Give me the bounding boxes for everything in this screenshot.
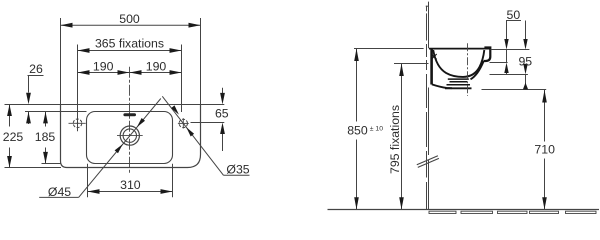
svg-text:850: 850 xyxy=(347,123,368,137)
node diameter45 arrows xyxy=(115,144,123,153)
basin inner bowl outline xyxy=(87,112,173,164)
wire 190 dimension line xyxy=(78,72,182,74)
wire 795 dimension line xyxy=(401,64,403,210)
wire 26 label underline xyxy=(28,75,44,77)
svg-text:50: 50 xyxy=(507,8,521,22)
tap hole right xyxy=(179,119,187,127)
wire 185 dimension vertical xyxy=(45,112,47,127)
node 850 arrows xyxy=(354,49,359,62)
wire 795 extension top xyxy=(394,63,429,65)
wire 500 extension right xyxy=(200,18,202,105)
wire bottom extension left xyxy=(5,167,62,169)
overflow slot xyxy=(123,113,136,116)
wire rim top extension right xyxy=(491,49,530,51)
svg-text:95: 95 xyxy=(518,55,532,69)
wire 310 extension right xyxy=(172,164,174,197)
node 710 arrows xyxy=(542,90,547,103)
svg-text:Ø45: Ø45 xyxy=(48,185,71,199)
node arrow above underside line xyxy=(523,83,528,90)
leader diameter 35 xyxy=(162,96,223,175)
svg-text:Ø35: Ø35 xyxy=(226,162,249,176)
svg-text:65: 65 xyxy=(215,107,229,121)
centerline bowl section xyxy=(467,43,469,96)
wire 310 dimension line xyxy=(88,191,173,193)
node 190 arrows xyxy=(78,70,90,75)
svg-text:310: 310 xyxy=(120,178,141,192)
svg-text:710: 710 xyxy=(534,143,555,157)
centerline basin vertical xyxy=(129,67,131,174)
wire extension line y74 xyxy=(490,74,528,76)
wire 850 dimension line xyxy=(356,49,358,210)
arrowheads xyxy=(7,23,547,210)
wire top extension line left view xyxy=(5,104,225,106)
wire 65 dimension arrows stems xyxy=(222,88,224,93)
node 365 arrows xyxy=(78,48,90,53)
wire 500 dimension line xyxy=(61,24,201,26)
node 225 arrows xyxy=(7,105,12,117)
svg-text:185: 185 xyxy=(35,130,56,144)
wire 365 extension left xyxy=(77,45,79,132)
node 500 arrows xyxy=(61,23,73,28)
wire 225 dimension vertical xyxy=(9,105,11,127)
wire 95 lower extension xyxy=(490,62,508,64)
svg-text:± 10: ± 10 xyxy=(370,126,383,133)
wire 50 dim vertical A xyxy=(506,21,508,75)
svg-text:26: 26 xyxy=(29,62,43,76)
leader diameter 45 xyxy=(39,196,78,198)
wire 500 extension left xyxy=(60,18,62,105)
drain circle outer xyxy=(120,126,139,145)
wire 50 dim vertical B xyxy=(525,21,527,90)
wire 365 dimension line xyxy=(78,50,182,52)
svg-text:365 fixations: 365 fixations xyxy=(95,37,164,51)
basin section profile xyxy=(429,48,490,89)
wire tap hole extension line xyxy=(191,122,225,124)
wall line right view xyxy=(426,6,428,210)
node 185 arrows xyxy=(43,112,48,124)
node 795 arrows xyxy=(399,64,404,77)
svg-text:500: 500 xyxy=(119,12,140,26)
wire 850 extension top xyxy=(354,48,424,50)
wall line right view second xyxy=(428,2,430,210)
node 50 arrows xyxy=(504,39,508,50)
svg-text:190: 190 xyxy=(93,60,114,74)
svg-text:190: 190 xyxy=(146,60,167,74)
node 310 arrows xyxy=(88,189,100,194)
fixation hole left xyxy=(73,119,82,128)
svg-text:225: 225 xyxy=(3,130,24,144)
wire 26 dimension vertical xyxy=(28,76,30,93)
floor line xyxy=(328,209,600,211)
node diameter35 arrows xyxy=(171,105,179,114)
svg-text:795 fixations: 795 fixations xyxy=(388,105,402,174)
wire 50 dimension line xyxy=(506,20,521,22)
wire 710 dimension line xyxy=(544,90,546,210)
node 65 arrows xyxy=(220,93,225,105)
break symbol xyxy=(417,156,438,165)
drain horizontal tick xyxy=(117,135,143,137)
wire 310 extension left xyxy=(87,164,89,197)
basin outer outline (top view) xyxy=(61,105,201,168)
wire underside extension xyxy=(482,89,547,91)
wire bowl top extension line xyxy=(25,111,87,113)
wire bowl bottom extension xyxy=(42,163,62,165)
node 26 arrows xyxy=(26,93,31,105)
floor hatching xyxy=(429,211,596,213)
drain circle inner xyxy=(123,129,136,142)
wire 365 extension right xyxy=(181,45,183,113)
